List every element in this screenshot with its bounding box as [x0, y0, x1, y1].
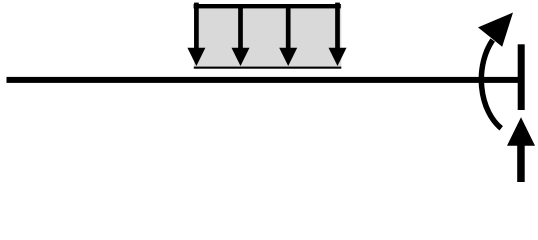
distributed load area (gray fill): [194, 4, 341, 68]
moment arrow M: [478, 13, 513, 129]
load arrow 2: [232, 4, 250, 66]
load arrow 3: [279, 4, 297, 66]
load arrow 1: [187, 3, 205, 66]
reaction force arrow R: [507, 117, 535, 182]
beam: [7, 77, 520, 83]
support bar: [518, 44, 525, 110]
distributed load bottom edge: [194, 67, 341, 69]
load arrow 4: [329, 3, 347, 66]
distributed load top bar: [194, 4, 341, 8]
